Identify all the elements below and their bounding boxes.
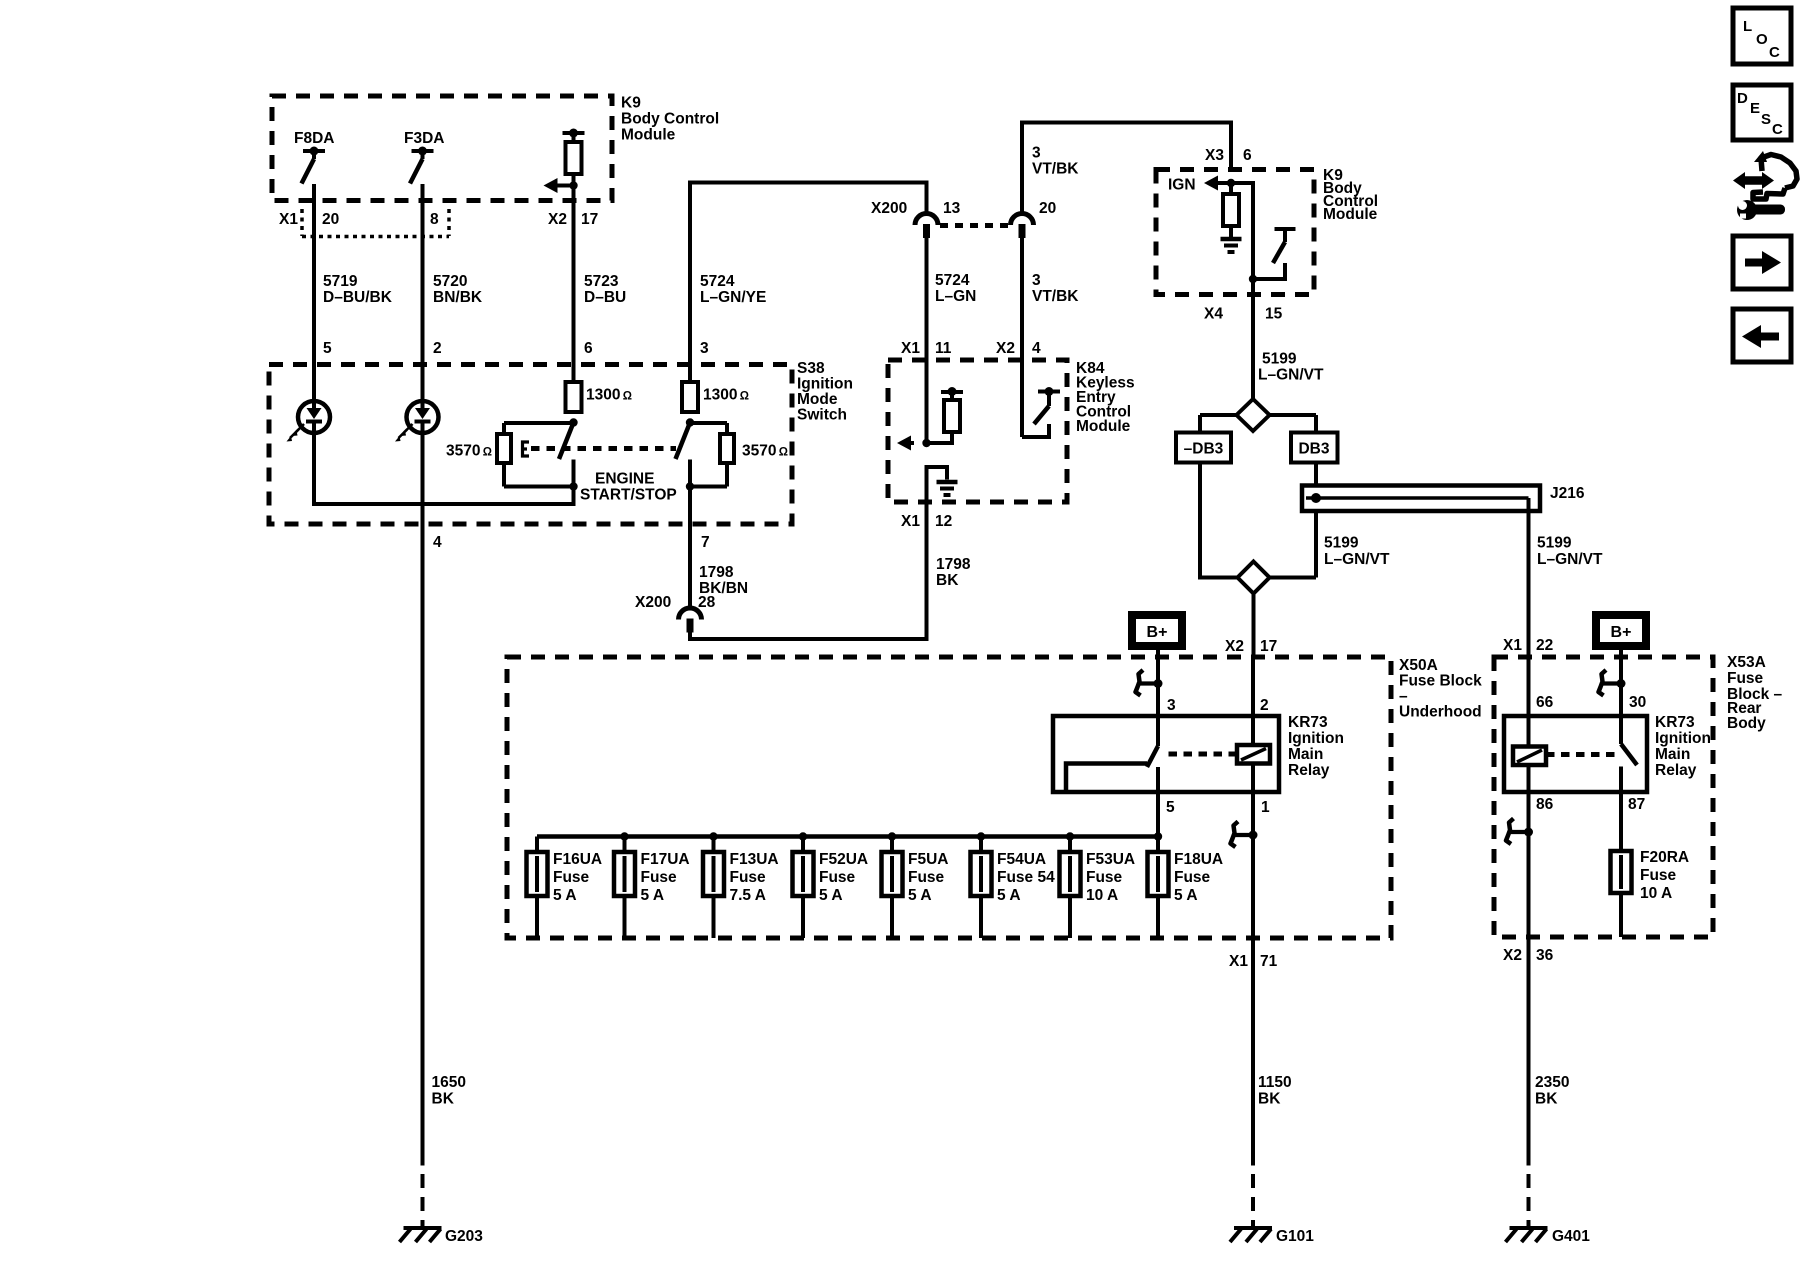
wire from X200-28 to K84 X1-12 — [690, 502, 927, 639]
svg-text:L–GN: L–GN — [935, 288, 976, 305]
mechanical linkage dashed line with bracket (ENGINE START/STOP) — [523, 442, 677, 456]
switch blade ENGINE START/STOP right (S38) — [676, 418, 695, 486]
svg-text:8: 8 — [430, 211, 439, 228]
wire internal K9 to switch — [1231, 183, 1253, 279]
node DB3 box — [1291, 415, 1338, 463]
LED indicator 1 (in S38) — [287, 401, 331, 442]
module S38 Ignition Mode Switch dashed box — [269, 365, 792, 525]
svg-text:X1: X1 — [901, 513, 920, 530]
svg-text:Fuse: Fuse — [553, 869, 590, 886]
label circuit 5199 L-GN/VT (upper) — [1258, 351, 1324, 384]
svg-text:X1: X1 — [1229, 953, 1248, 970]
svg-text:5199: 5199 — [1537, 535, 1572, 552]
relay KR73 coil (X53A) — [1513, 747, 1546, 766]
label pins X3 6 — [1205, 147, 1252, 164]
fuse F13UA 7.5 A — [703, 832, 779, 938]
arrow IGN — [1204, 176, 1231, 191]
svg-text:BK: BK — [1535, 1091, 1558, 1108]
svg-text:IGN: IGN — [1168, 177, 1196, 194]
label circuit 3 VT/BK (upper) — [1032, 145, 1079, 178]
svg-text:Fuse: Fuse — [1640, 867, 1677, 884]
svg-text:F5UA: F5UA — [908, 851, 948, 868]
svg-text:Ignition: Ignition — [1288, 730, 1344, 747]
svg-text:1150: 1150 — [1258, 1074, 1292, 1091]
svg-text:X2: X2 — [996, 340, 1015, 357]
svg-text:20: 20 — [1039, 200, 1056, 217]
wire DB3 down through J216 to lower splice — [1270, 463, 1317, 578]
label pin 7, circuit 1798 BK/BN — [699, 534, 748, 597]
relay KR73 switch blade (X53A) — [1621, 716, 1637, 765]
svg-text:Relay: Relay — [1655, 762, 1697, 779]
resistor to ground (K9 right internal) — [1221, 183, 1242, 252]
svg-text:11: 11 — [935, 340, 952, 357]
wire relay pin 5 to fuse bus — [1156, 767, 1160, 852]
svg-text:87: 87 — [1628, 796, 1645, 813]
module X53A Fuse Block - Rear Body dashed box — [1494, 657, 1713, 937]
svg-text:Body Control: Body Control — [621, 111, 719, 128]
svg-text:F18UA: F18UA — [1174, 851, 1223, 868]
label K9 Body Control Module — [621, 95, 719, 144]
svg-text:K9: K9 — [621, 95, 641, 112]
svg-text:L–GN/VT: L–GN/VT — [1537, 551, 1603, 568]
svg-text:5719: 5719 — [323, 273, 358, 290]
arrow to internal circuit (K84) — [897, 436, 914, 451]
svg-text:1: 1 — [1261, 799, 1270, 816]
svg-text:10 A: 10 A — [1640, 885, 1672, 902]
bus tap hook below B+ (X53A) — [1599, 670, 1626, 696]
svg-text:2350: 2350 — [1535, 1074, 1569, 1091]
label pins X2 17 (X50A) — [1225, 638, 1277, 655]
svg-text:Fuse: Fuse — [1174, 869, 1211, 886]
label pins X1 71 — [1229, 953, 1278, 970]
svg-text:BK: BK — [1258, 1091, 1281, 1108]
svg-text:3: 3 — [1167, 697, 1176, 714]
back arrow button — [1733, 309, 1791, 362]
wire X1-22 through X53A (to ground G401) — [1527, 657, 1531, 1228]
relay KR73 linkage dashes (X53A) — [1546, 752, 1618, 757]
label K9 Body Control Module (right) — [1323, 167, 1378, 223]
svg-text:B+: B+ — [1611, 624, 1632, 641]
svg-text:X1: X1 — [1503, 637, 1522, 654]
ground G101 — [1230, 1228, 1314, 1245]
label pins 5 / 1 — [1166, 799, 1270, 816]
svg-text:Fuse Block: Fuse Block — [1399, 673, 1482, 690]
relay KR73 linkage dashes — [1164, 752, 1237, 757]
svg-text:5199: 5199 — [1324, 535, 1359, 552]
svg-text:5720: 5720 — [433, 273, 467, 290]
svg-text:1650: 1650 — [432, 1074, 466, 1091]
svg-text:BN/BK: BN/BK — [433, 289, 483, 306]
svg-text:6: 6 — [584, 340, 593, 357]
junction dot X3-6 — [1227, 179, 1235, 187]
svg-text:12: 12 — [935, 513, 952, 530]
switch blade ENGINE START/STOP left (S38) — [559, 418, 578, 486]
svg-text:S: S — [1761, 111, 1771, 128]
connector X200 mating dashed line — [940, 223, 1008, 228]
svg-text:1798: 1798 — [936, 556, 971, 573]
label circuit 1798 BK — [936, 556, 971, 589]
wire 5199 (lower splice to X50A X2-17) — [1252, 594, 1256, 658]
label X50A Fuse Block - Underhood — [1399, 657, 1482, 721]
resistor 3570 ohm (right, S38) — [690, 423, 788, 487]
fuse F16UA 5 A — [527, 837, 603, 939]
svg-text:F53UA: F53UA — [1086, 851, 1135, 868]
svg-text:VT/BK: VT/BK — [1032, 161, 1079, 178]
junction on X2-17 wire — [569, 181, 577, 189]
forward arrow button — [1733, 236, 1791, 289]
svg-text:ENGINE: ENGINE — [595, 471, 654, 488]
svg-text:66: 66 — [1536, 694, 1554, 711]
svg-text:1798: 1798 — [699, 564, 734, 581]
resistor 1300 ohm (right, S38) — [682, 382, 749, 412]
svg-text:5 A: 5 A — [997, 887, 1021, 904]
label S38 Ignition Mode Switch — [797, 360, 853, 424]
label circuit 5723 D-BU, pin 6 — [584, 273, 626, 357]
label pins X4 15 — [1204, 306, 1283, 323]
svg-text:X53A: X53A — [1727, 654, 1766, 671]
ground (K84 internal) — [927, 467, 958, 502]
svg-text:6: 6 — [1243, 147, 1252, 164]
pin labels X1 20 / 8 / X2 17 — [279, 211, 598, 228]
svg-text:F20RA: F20RA — [1640, 849, 1689, 866]
svg-text:C: C — [1769, 44, 1780, 61]
wire relay pin 87 to fuse F20RA — [1619, 767, 1623, 852]
module K84 Keyless Entry Control Module dashed box — [888, 360, 1067, 502]
label K84 Keyless Entry Control Module — [1076, 360, 1135, 435]
svg-text:4: 4 — [1032, 340, 1041, 357]
fuse F18UA 5 A — [1148, 832, 1224, 938]
svg-text:5723: 5723 — [584, 273, 619, 290]
label X53A Fuse Block - Rear Body — [1727, 654, 1783, 732]
svg-text:Ignition: Ignition — [1655, 730, 1711, 747]
junction dots left switch — [569, 482, 577, 490]
svg-text:7: 7 — [701, 534, 710, 551]
svg-text:Module: Module — [1076, 418, 1131, 435]
svg-text:Switch: Switch — [797, 407, 847, 424]
svg-text:Fuse: Fuse — [819, 869, 856, 886]
svg-text:3: 3 — [1032, 272, 1041, 289]
DESC button — [1733, 85, 1791, 140]
label circuit 5724 L-GN — [935, 272, 976, 305]
relay KR73 Ignition Main Relay (X53A) box — [1504, 716, 1647, 792]
svg-text:5 A: 5 A — [553, 887, 577, 904]
label pins X1 12 — [901, 513, 952, 530]
label pins X2 36 — [1503, 947, 1554, 964]
junction dot right switch — [686, 482, 694, 490]
svg-text:20: 20 — [322, 211, 339, 228]
svg-text:KR73: KR73 — [1655, 714, 1695, 731]
svg-text:17: 17 — [1260, 638, 1277, 655]
svg-text:X50A: X50A — [1399, 657, 1438, 674]
label pins 86 / 87 — [1536, 796, 1645, 813]
svg-text:X4: X4 — [1204, 306, 1223, 323]
label circuit 5199 L-GN/VT (right) — [1537, 535, 1603, 569]
svg-text:D–BU: D–BU — [584, 289, 626, 306]
svg-text:G401: G401 — [1552, 1228, 1590, 1245]
svg-text:Module: Module — [621, 127, 676, 144]
wire 5719 D-BU/BK (F8DA to LED) — [312, 184, 316, 401]
svg-text:3: 3 — [1032, 145, 1041, 162]
svg-text:X1: X1 — [279, 211, 298, 228]
svg-text:D: D — [1737, 90, 1748, 107]
ground G203 — [400, 1228, 484, 1245]
svg-text:J216: J216 — [1550, 485, 1585, 502]
svg-text:5: 5 — [1166, 799, 1175, 816]
fuse F20RA 10 A — [1611, 849, 1690, 937]
svg-text:C: C — [1772, 121, 1783, 138]
svg-text:4: 4 — [433, 534, 442, 551]
wire LED1 bottom to switch1 bottom node — [314, 433, 574, 504]
label IGN with arrow (K9 internal) — [1168, 177, 1196, 194]
svg-text:O: O — [1756, 31, 1768, 48]
svg-text:5 A: 5 A — [819, 887, 843, 904]
fuse F52UA 5 A — [793, 832, 869, 938]
svg-text:Body: Body — [1727, 715, 1766, 732]
svg-text:2: 2 — [1260, 697, 1269, 714]
svg-text:F8DA: F8DA — [294, 130, 334, 147]
svg-text:L–GN/VT: L–GN/VT — [1258, 367, 1324, 384]
relay KR73 coil — [1237, 657, 1270, 835]
label pins X2 4 — [996, 340, 1041, 357]
svg-text:L–GN/YE: L–GN/YE — [700, 289, 766, 306]
label circuit 1650 BK — [432, 1074, 466, 1108]
svg-text:F13UA: F13UA — [730, 851, 779, 868]
svg-text:G203: G203 — [445, 1228, 483, 1245]
wire 5199 L-GN/VT right branch (J216 to X53A X1-22) — [1527, 498, 1531, 657]
label circuit 2350 BK — [1535, 1074, 1569, 1108]
label pins 3 / 2 — [1167, 697, 1269, 714]
svg-text:5 A: 5 A — [641, 887, 665, 904]
label circuit 5199 L-GN/VT (middle) — [1324, 535, 1390, 569]
svg-text:5 A: 5 A — [908, 887, 932, 904]
svg-text:5724: 5724 — [935, 272, 970, 289]
splice pack J216 — [1302, 485, 1585, 511]
svg-text:28: 28 — [698, 594, 716, 611]
svg-text:F52UA: F52UA — [819, 851, 868, 868]
relay KR73 Ignition Main Relay (X50A) box — [1053, 716, 1279, 792]
wire 1150 BK (relay pin 1 to ground G101) — [1251, 835, 1255, 1228]
svg-text:X2: X2 — [548, 211, 567, 228]
svg-text:Fuse: Fuse — [730, 869, 767, 886]
fuse F53UA 10 A — [1060, 832, 1136, 938]
bus tap hook below B+ (X50A) — [1136, 670, 1163, 696]
ground G401 — [1506, 1228, 1591, 1245]
svg-text:7.5 A: 7.5 A — [730, 887, 766, 904]
svg-text:F17UA: F17UA — [641, 851, 690, 868]
label pins X1 11 — [901, 340, 952, 357]
svg-text:Fuse: Fuse — [908, 869, 945, 886]
svg-text:Fuse: Fuse — [1086, 869, 1123, 886]
junction dot K84 X1-11 — [922, 439, 930, 447]
svg-text:L–GN/VT: L–GN/VT — [1324, 551, 1390, 568]
connector X200 cavity 20 — [1011, 200, 1057, 238]
label circuit 3 VT/BK (lower) — [1032, 272, 1079, 305]
svg-text:BK: BK — [432, 1091, 455, 1108]
svg-text:15: 15 — [1265, 306, 1283, 323]
connector X200 cavity 28 — [635, 594, 716, 633]
battery feed B+ (X50A) — [1132, 615, 1182, 716]
module X50A Fuse Block - Underhood dashed box — [507, 657, 1391, 938]
module K9 Body Control Module (right) dashed box — [1156, 170, 1314, 295]
svg-text:X200: X200 — [635, 594, 671, 611]
svg-text:Ignition: Ignition — [797, 376, 853, 393]
fuse F54UA 5 A — [971, 832, 1056, 938]
fuse F17UA 5 A — [614, 832, 690, 938]
LED indicator 2 (in S38) — [395, 401, 439, 442]
label circuit 1150 BK — [1258, 1074, 1292, 1108]
wire 5720 BN/BK (F3DA to LED) — [421, 184, 425, 401]
module K9 Body Control Module (upper-left) dashed box — [272, 96, 612, 201]
svg-text:DB3: DB3 — [1298, 441, 1329, 458]
svg-text:X3: X3 — [1205, 147, 1224, 164]
splice diamond (lower) — [1238, 562, 1270, 594]
label circuit 5719 D-BU/BK, pin 5 — [323, 273, 393, 357]
wire 5724 L-GN (X200-13 down to K84 X1-11) — [925, 237, 929, 443]
svg-text:10 A: 10 A — [1086, 887, 1118, 904]
harness navigation icon (double arrow with wrench) — [1733, 151, 1797, 220]
svg-text:X200: X200 — [871, 200, 907, 217]
svg-text:86: 86 — [1536, 796, 1554, 813]
label ENGINE START/STOP — [580, 471, 677, 504]
svg-text:3: 3 — [700, 340, 709, 357]
svg-text:71: 71 — [1260, 953, 1278, 970]
svg-text:F54UA: F54UA — [997, 851, 1046, 868]
connector X200 cavity 13 — [871, 200, 961, 238]
bus tap hook at relay pin 1 — [1231, 822, 1258, 848]
relay KR73 switch blade — [1147, 716, 1158, 767]
splice diamond (upper) — [1200, 399, 1316, 431]
wire 5724 L-GN/YE (S38 pin 3 up and over to X200-13) — [690, 183, 927, 383]
relay KR73 armature contact (left) — [1066, 764, 1147, 793]
svg-text:36: 36 — [1536, 947, 1554, 964]
svg-text:5 A: 5 A — [1174, 887, 1198, 904]
svg-text:F3DA: F3DA — [404, 130, 444, 147]
svg-text:S38: S38 — [797, 360, 825, 377]
svg-text:X2: X2 — [1225, 638, 1244, 655]
svg-text:KR73: KR73 — [1288, 714, 1328, 731]
wire 3 VT/BK (top run from X200-20 to K9 X3-6) — [1022, 123, 1231, 215]
label KR73 Ignition Main Relay (X53A) — [1655, 714, 1711, 779]
svg-text:30: 30 — [1629, 694, 1646, 711]
connector X1 pin row dotted box — [302, 209, 449, 237]
svg-text:Fuse: Fuse — [1727, 670, 1764, 687]
svg-text:–: – — [1399, 688, 1408, 705]
wire 5723 D-BU (K9 X2-17 to S38 pin 6) — [572, 186, 576, 383]
svg-text:B+: B+ — [1147, 624, 1168, 641]
svg-text:VT/BK: VT/BK — [1032, 288, 1079, 305]
switch (K9 right internal) — [1249, 229, 1296, 283]
battery feed B+ (X53A) — [1596, 615, 1646, 716]
label pins 66 / 30 — [1536, 694, 1646, 711]
label circuit 5720 BN/BK, pin 2 — [433, 273, 483, 357]
svg-text:–DB3: –DB3 — [1184, 441, 1224, 458]
LOC button — [1733, 8, 1791, 64]
wire -DB3 down to lower splice — [1200, 463, 1238, 578]
svg-text:22: 22 — [1536, 637, 1553, 654]
wire 1650 BK (LED2 down to ground G203) — [421, 433, 425, 1228]
arrow to internal circuit (K9 BCM) — [544, 178, 574, 193]
wire 1798 BK/BN (S38 pin 7 to connector X200-28) — [688, 487, 692, 609]
svg-text:L: L — [1743, 18, 1752, 35]
resistor 3570 ohm (left, S38) — [446, 423, 574, 487]
svg-text:E: E — [1750, 100, 1760, 117]
svg-text:Main: Main — [1288, 746, 1323, 763]
label KR73 Ignition Main Relay (X50A) — [1288, 714, 1344, 779]
switch F3DA (in K9 BCM) — [404, 130, 444, 184]
svg-text:Relay: Relay — [1288, 762, 1330, 779]
svg-text:START/STOP: START/STOP — [580, 487, 677, 504]
svg-text:13: 13 — [943, 200, 961, 217]
svg-text:5724: 5724 — [700, 273, 735, 290]
svg-text:BK: BK — [936, 572, 959, 589]
switch F8DA (in K9 BCM) — [294, 130, 334, 184]
svg-text:X2: X2 — [1503, 947, 1522, 964]
label circuit 5724 L-GN/YE, pin 3 — [700, 273, 766, 357]
svg-text:5199: 5199 — [1262, 351, 1297, 368]
resistor (K84 internal) with supply bar — [927, 387, 964, 443]
svg-text:Fuse 54: Fuse 54 — [997, 869, 1055, 886]
wire 5199 L-GN/VT (X4-15 down to splice diamond) — [1251, 279, 1255, 399]
resistor 1300 ohm (left, S38) — [566, 382, 633, 412]
svg-text:Fuse: Fuse — [641, 869, 678, 886]
resistor (K9 BCM internal, X2-17 output) with supply bar — [563, 129, 585, 186]
fuse F5UA 5 A — [882, 832, 949, 938]
node -DB3 box — [1176, 415, 1231, 463]
svg-text:Underhood: Underhood — [1399, 704, 1482, 721]
svg-text:5: 5 — [323, 340, 332, 357]
wire 3 VT/BK (X200-20 down to K84 X2-4) — [1020, 237, 1024, 437]
bus tap hook at relay pin 86 — [1506, 819, 1533, 845]
svg-text:Main: Main — [1655, 746, 1690, 763]
svg-text:G101: G101 — [1276, 1228, 1314, 1245]
svg-text:17: 17 — [581, 211, 598, 228]
svg-text:2: 2 — [433, 340, 442, 357]
svg-text:F16UA: F16UA — [553, 851, 602, 868]
fuse bus wire (relay pin 5 feed) — [537, 834, 1162, 839]
switch (K84 internal, X2-4) — [1022, 387, 1060, 437]
svg-text:Mode: Mode — [797, 391, 838, 408]
svg-text:Module: Module — [1323, 206, 1378, 223]
label pins X1 22 (X53A) — [1503, 637, 1553, 654]
svg-text:X1: X1 — [901, 340, 920, 357]
svg-text:D–BU/BK: D–BU/BK — [323, 289, 393, 306]
